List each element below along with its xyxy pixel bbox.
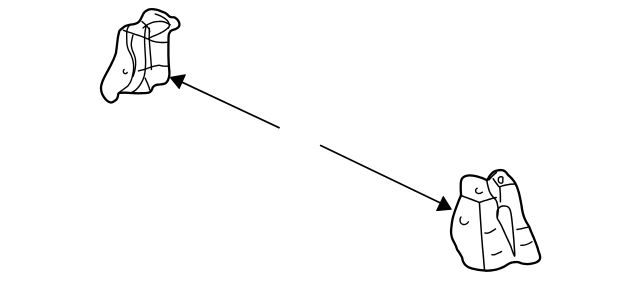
left bracket flange upper band (155, 14, 169, 28)
left bracket V crease (142, 22, 150, 32)
right bracket outer outline (451, 170, 540, 271)
right bracket dash 1 (485, 229, 496, 233)
left bracket step line (139, 65, 169, 71)
right bracket dash 4 (521, 242, 532, 246)
left bracket left fold curve b (131, 35, 135, 76)
left bracket left fold curve (119, 25, 134, 93)
right bracket dash 3 (517, 227, 529, 230)
left bracket small hole c-mark (123, 69, 127, 73)
right bracket hump fold line (493, 179, 515, 187)
right bracket crease below fold (499, 188, 502, 202)
right bracket crease beside notch (489, 173, 496, 180)
right bracket dash 2 (492, 252, 502, 255)
right bracket teardrop hole (498, 177, 503, 183)
arrow 1 head (170, 75, 185, 89)
right bracket ridge line right (479, 198, 496, 203)
arrow 2 shaft (321, 146, 442, 204)
right bracket saddle line (487, 181, 498, 219)
arrow 2 head (437, 197, 452, 211)
left bracket long crease (124, 30, 167, 42)
left bracket outer outline (101, 9, 179, 102)
right bracket blade teardrop (497, 206, 515, 256)
right bracket c-mark on left face (460, 217, 468, 225)
right bracket ridge line left (461, 195, 480, 202)
left bracket flange lower band (143, 21, 170, 28)
left bracket foot crease (145, 78, 150, 90)
left bracket middle fold curve (131, 26, 146, 93)
left bracket inner vertical fold (149, 28, 151, 69)
right bracket c-mark on hump (476, 188, 483, 193)
arrow 1 shaft (182, 82, 279, 128)
left bracket flange return hook (149, 27, 169, 38)
right bracket vertical fold (479, 203, 484, 270)
